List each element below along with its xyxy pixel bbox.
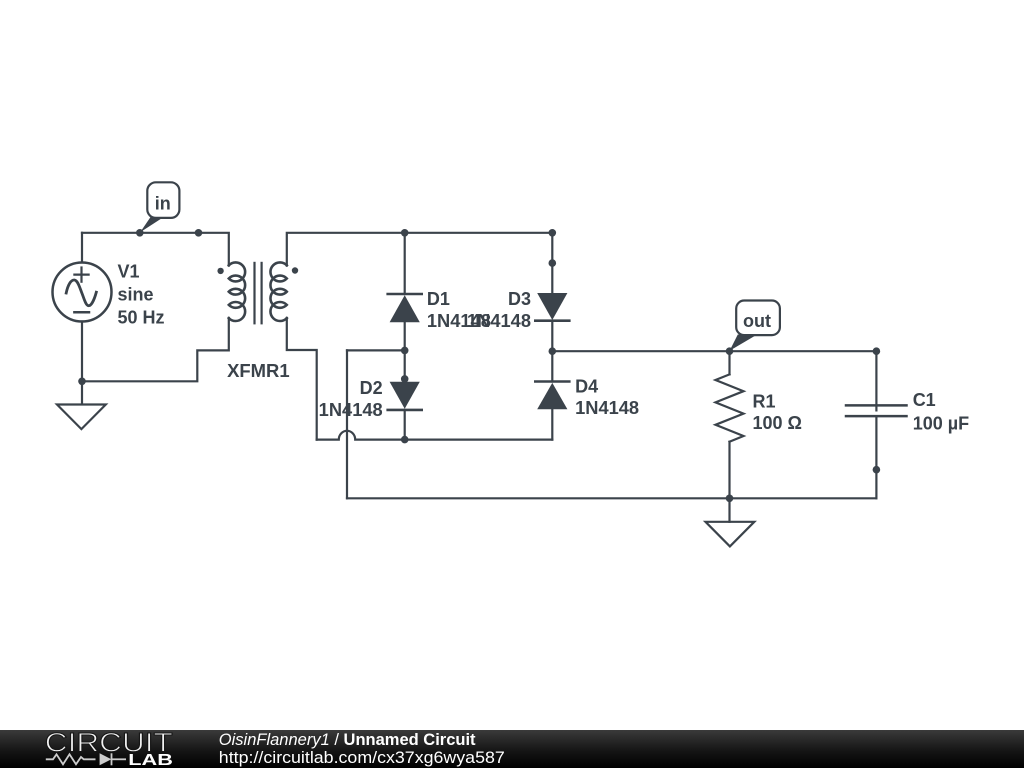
node dot C1 bottom [873, 466, 881, 474]
wire D4 bottom [551, 409, 553, 439]
wire top primary [82, 233, 229, 266]
wire bottom bridge with hop [317, 431, 553, 440]
diode D1 [388, 294, 422, 322]
wire secondary top [287, 233, 553, 266]
wire D1 branch top [404, 233, 406, 294]
svg-text:sine: sine [118, 285, 154, 305]
voltage source V1 [53, 263, 112, 322]
svg-text:50 Hz: 50 Hz [118, 308, 165, 328]
net flag out [730, 301, 780, 351]
ground (R1) [706, 522, 755, 547]
svg-text:C1: C1 [913, 390, 936, 410]
wire R1 top [728, 351, 730, 374]
wire middle left [347, 349, 405, 351]
diode D3 [535, 293, 569, 321]
svg-text:1N4148: 1N4148 [319, 400, 383, 420]
transformer XFMR1 [229, 262, 287, 323]
wire C1 top stem [875, 351, 877, 410]
node dot in [136, 229, 144, 237]
node dot out [726, 347, 734, 355]
svg-text:1N4148: 1N4148 [467, 311, 531, 331]
svg-text:100 Ω: 100 Ω [753, 413, 802, 433]
node dot R1 bottom [726, 495, 734, 503]
wire D4 top [551, 351, 553, 381]
phase dot secondary [292, 267, 298, 273]
svg-text:R1: R1 [753, 391, 776, 411]
node dot primary top [195, 229, 203, 237]
wire D1 to middle [404, 322, 406, 350]
node dot D2 upper [401, 375, 409, 383]
wire secondary bottom [287, 318, 317, 440]
wire R1 ground stem [728, 498, 730, 522]
node dot D3 corner [549, 229, 557, 237]
node dot D3 upper [549, 259, 557, 267]
diode D4 [535, 382, 569, 410]
node dot C1 top [873, 347, 881, 355]
svg-text:100 µF: 100 µF [913, 414, 969, 434]
svg-text:D3: D3 [508, 289, 531, 309]
wire middle out [552, 350, 876, 352]
svg-text:V1: V1 [118, 262, 140, 282]
logo resistor glyph [46, 754, 96, 764]
logo diode glyph [100, 753, 112, 765]
wire V1 ground stem [81, 381, 83, 404]
ground (V1) [57, 405, 106, 430]
wire D3 bottom [551, 321, 553, 352]
wire V1 bottom lead [81, 322, 83, 382]
wire C1 bottom stem [875, 416, 877, 498]
svg-text:XFMR1: XFMR1 [227, 361, 290, 381]
wire D3 top [551, 233, 553, 293]
net flag in [140, 182, 179, 232]
phase dot primary [217, 268, 223, 274]
svg-text:D1: D1 [427, 289, 450, 309]
svg-text:D4: D4 [575, 376, 598, 396]
node dot D2 bottom [401, 436, 409, 444]
footer bar [0, 730, 1024, 768]
diode D2 [388, 382, 422, 410]
svg-text:in: in [155, 194, 171, 214]
svg-text:1N4148: 1N4148 [575, 398, 639, 418]
node dot D3 D4 middle [549, 347, 557, 355]
wire bottom rail [347, 497, 876, 499]
node dot D1 top [401, 229, 409, 237]
node dot V1 bottom [78, 378, 86, 386]
wire D2 top [404, 350, 406, 381]
resistor R1 [716, 374, 744, 441]
wire D2 bottom [404, 410, 406, 440]
wire R1 bottom [728, 442, 730, 499]
capacitor C1 [846, 405, 907, 416]
wire V1 top lead [81, 233, 83, 262]
svg-text:out: out [743, 311, 771, 331]
node dot D1 D2 middle [401, 347, 409, 355]
wire vertical to bottom rail [346, 350, 348, 498]
svg-text:D2: D2 [360, 378, 383, 398]
wire primary bottom [82, 318, 229, 381]
